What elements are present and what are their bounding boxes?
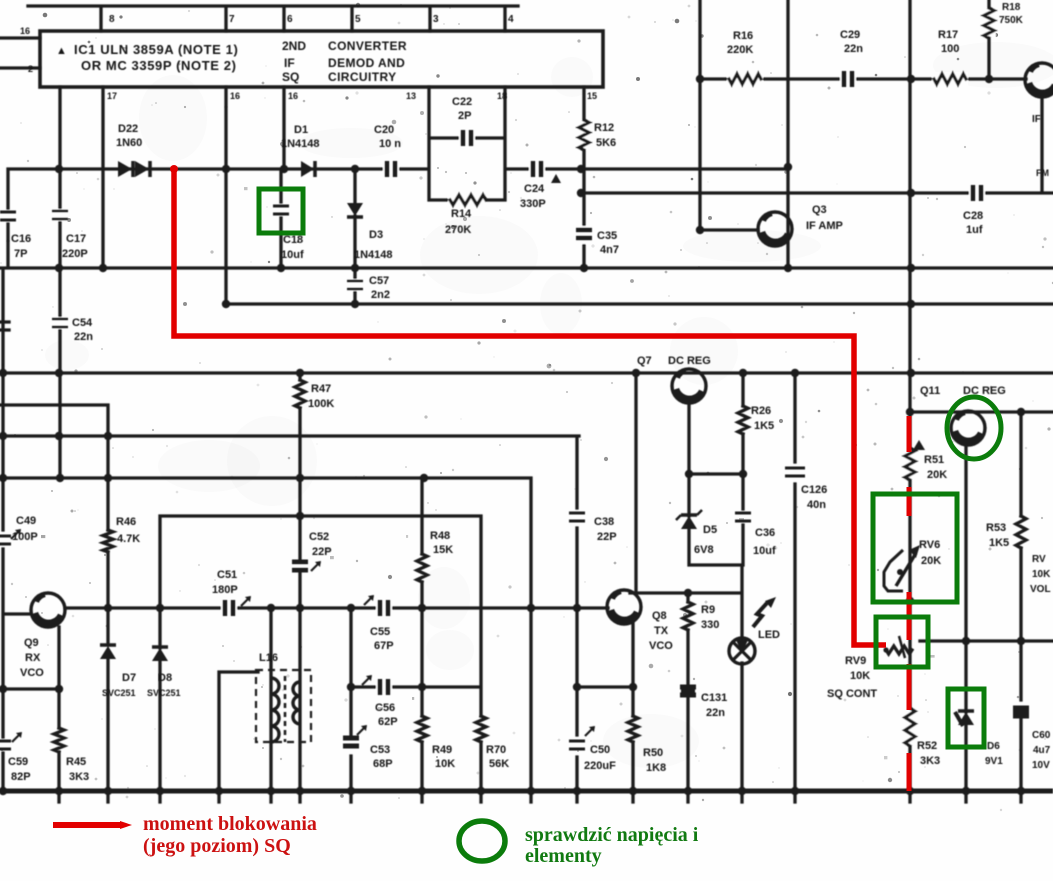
svg-text:IC1 ULN 3859A (NOTE 1): IC1 ULN 3859A (NOTE 1) <box>74 42 238 57</box>
svg-text:1uf: 1uf <box>966 224 983 236</box>
svg-text:4: 4 <box>508 14 514 25</box>
svg-text:16: 16 <box>288 91 298 101</box>
svg-text:FM: FM <box>1036 168 1049 178</box>
svg-text:CIRCUITRY: CIRCUITRY <box>328 70 397 84</box>
svg-text:R16: R16 <box>733 30 753 42</box>
svg-text:13: 13 <box>406 91 416 101</box>
svg-text:4.7K: 4.7K <box>117 533 140 545</box>
svg-text:5: 5 <box>355 14 361 25</box>
svg-text:D8: D8 <box>158 672 172 684</box>
svg-text:R70: R70 <box>486 744 506 756</box>
svg-text:▲: ▲ <box>56 45 67 57</box>
svg-text:20K: 20K <box>927 469 947 481</box>
svg-text:R50: R50 <box>643 747 663 759</box>
svg-text:100P: 100P <box>12 531 38 543</box>
svg-text:17: 17 <box>107 91 117 101</box>
svg-text:OR MC 3359P (NOTE 2): OR MC 3359P (NOTE 2) <box>81 58 237 73</box>
svg-text:40n: 40n <box>807 499 826 511</box>
svg-text:2P: 2P <box>458 110 471 122</box>
svg-text:sprawdzić napięcia i: sprawdzić napięcia i <box>525 824 699 846</box>
svg-text:22n: 22n <box>706 707 725 719</box>
svg-text:2ND: 2ND <box>282 39 306 53</box>
svg-text:270K: 270K <box>445 224 471 236</box>
svg-text:82P: 82P <box>11 771 31 783</box>
svg-text:C53: C53 <box>370 744 390 756</box>
svg-text:4u7: 4u7 <box>1033 745 1051 756</box>
svg-text:Q8: Q8 <box>652 610 667 622</box>
svg-text:R51: R51 <box>924 454 944 466</box>
svg-text:1N60: 1N60 <box>116 137 142 149</box>
svg-text:(jego poziom) SQ: (jego poziom) SQ <box>143 835 291 857</box>
svg-text:R18: R18 <box>1002 2 1021 13</box>
svg-text:67P: 67P <box>374 640 394 652</box>
svg-text:D3: D3 <box>369 229 383 241</box>
svg-text:IF: IF <box>284 56 295 70</box>
svg-text:DC REG: DC REG <box>668 355 711 367</box>
svg-text:RV6: RV6 <box>919 539 940 551</box>
svg-text:VCO: VCO <box>20 667 44 679</box>
svg-text:D22: D22 <box>118 123 138 135</box>
svg-text:C16: C16 <box>11 233 31 245</box>
svg-text:C50: C50 <box>590 744 610 756</box>
svg-text:10 n: 10 n <box>379 138 401 150</box>
svg-text:10K: 10K <box>1032 569 1051 580</box>
svg-text:3K3: 3K3 <box>69 771 89 783</box>
svg-text:C55: C55 <box>370 626 390 638</box>
svg-text:R12: R12 <box>594 122 614 134</box>
svg-text:C51: C51 <box>217 569 237 581</box>
svg-text:330P: 330P <box>520 198 546 210</box>
svg-text:62P: 62P <box>378 716 398 728</box>
svg-text:R17: R17 <box>938 29 958 41</box>
svg-text:1N4148: 1N4148 <box>281 138 320 150</box>
svg-text:1K5: 1K5 <box>989 537 1009 549</box>
svg-text:SQ: SQ <box>282 70 299 84</box>
svg-text:22P: 22P <box>597 531 617 543</box>
svg-text:LED: LED <box>758 629 780 641</box>
svg-text:220P: 220P <box>62 248 88 260</box>
svg-text:L16: L16 <box>259 652 278 664</box>
svg-text:C59: C59 <box>8 756 28 768</box>
svg-text:100: 100 <box>941 43 959 55</box>
svg-text:3: 3 <box>433 14 439 25</box>
svg-text:RV9: RV9 <box>845 655 866 667</box>
svg-text:220uF: 220uF <box>584 760 616 772</box>
svg-text:RV: RV <box>1032 554 1046 565</box>
svg-text:C20: C20 <box>374 124 394 136</box>
svg-text:Q9: Q9 <box>24 637 39 649</box>
svg-text:moment blokowania: moment blokowania <box>143 813 317 835</box>
svg-text:15: 15 <box>587 91 597 101</box>
svg-text:R45: R45 <box>66 756 86 768</box>
svg-text:18: 18 <box>497 91 507 101</box>
svg-text:SQ CONT: SQ CONT <box>827 688 877 700</box>
svg-text:68P: 68P <box>373 758 393 770</box>
svg-text:C131: C131 <box>701 692 727 704</box>
svg-text:Q11: Q11 <box>920 385 940 397</box>
svg-text:R48: R48 <box>430 530 450 542</box>
svg-text:180P: 180P <box>212 584 238 596</box>
svg-text:C29: C29 <box>840 29 860 41</box>
svg-text:Q7: Q7 <box>637 355 652 367</box>
svg-text:R26: R26 <box>751 405 771 417</box>
svg-text:R53: R53 <box>986 522 1006 534</box>
svg-text:C126: C126 <box>801 484 827 496</box>
svg-text:750K: 750K <box>999 15 1024 26</box>
svg-text:IF AMP: IF AMP <box>806 220 843 232</box>
svg-text:2: 2 <box>28 64 33 74</box>
svg-text:C60: C60 <box>1032 730 1051 741</box>
svg-text:D5: D5 <box>703 524 717 536</box>
svg-text:7P: 7P <box>14 248 27 260</box>
svg-text:R52: R52 <box>917 740 937 752</box>
svg-text:D6: D6 <box>987 741 1000 752</box>
svg-text:6V8: 6V8 <box>694 544 714 556</box>
svg-text:R47: R47 <box>311 383 331 395</box>
svg-text:1N4148: 1N4148 <box>354 249 393 261</box>
svg-text:C24: C24 <box>524 183 545 195</box>
svg-text:5K6: 5K6 <box>596 137 616 149</box>
svg-text:C18: C18 <box>283 234 303 246</box>
svg-text:R49: R49 <box>432 744 452 756</box>
svg-text:C17: C17 <box>66 233 86 245</box>
svg-text:D1: D1 <box>294 124 308 136</box>
svg-text:C57: C57 <box>369 275 389 287</box>
svg-text:7: 7 <box>229 14 235 25</box>
svg-text:DEMOD AND: DEMOD AND <box>328 56 405 70</box>
svg-text:CONVERTER: CONVERTER <box>328 39 407 53</box>
svg-text:C54: C54 <box>72 317 93 329</box>
svg-text:16: 16 <box>20 26 30 36</box>
svg-text:VOL: VOL <box>1030 584 1051 595</box>
svg-text:100K: 100K <box>308 398 334 410</box>
svg-text:22P: 22P <box>312 546 332 558</box>
svg-text:R46: R46 <box>116 516 136 528</box>
svg-text:2n2: 2n2 <box>371 289 390 301</box>
svg-text:4n7: 4n7 <box>600 244 619 256</box>
svg-text:C38: C38 <box>594 516 614 528</box>
svg-text:10K: 10K <box>850 670 870 682</box>
svg-text:R14: R14 <box>451 208 472 220</box>
svg-text:3K3: 3K3 <box>920 755 940 767</box>
svg-text:16: 16 <box>230 91 240 101</box>
svg-text:1K5: 1K5 <box>754 420 774 432</box>
svg-text:330: 330 <box>701 619 719 631</box>
svg-text:C35: C35 <box>597 230 617 242</box>
svg-text:D7: D7 <box>122 672 136 684</box>
svg-text:10K: 10K <box>435 758 455 770</box>
svg-text:VCO: VCO <box>649 640 673 652</box>
svg-text:IF: IF <box>1032 114 1041 125</box>
svg-text:C49: C49 <box>16 515 36 527</box>
svg-text:220K: 220K <box>727 44 753 56</box>
svg-text:C56: C56 <box>375 702 395 714</box>
svg-text:R9: R9 <box>701 604 715 616</box>
svg-text:C28: C28 <box>963 210 983 222</box>
svg-text:SVC251: SVC251 <box>102 688 136 698</box>
svg-text:SVC251: SVC251 <box>147 688 181 698</box>
svg-text:10uf: 10uf <box>281 249 304 261</box>
svg-text:C36: C36 <box>755 527 775 539</box>
svg-text:56K: 56K <box>489 758 509 770</box>
svg-text:10uf: 10uf <box>753 545 776 557</box>
svg-text:elementy: elementy <box>525 845 602 867</box>
svg-text:C22: C22 <box>452 96 472 108</box>
svg-text:Q3: Q3 <box>812 204 827 216</box>
svg-text:15K: 15K <box>433 544 453 556</box>
svg-text:RX: RX <box>25 652 41 664</box>
svg-text:9V1: 9V1 <box>985 756 1003 767</box>
svg-text:10V: 10V <box>1032 760 1050 771</box>
svg-text:TX: TX <box>654 625 669 637</box>
svg-text:8: 8 <box>109 14 115 25</box>
svg-text:1K8: 1K8 <box>646 762 666 774</box>
svg-text:22n: 22n <box>844 43 863 55</box>
svg-text:C52: C52 <box>309 531 329 543</box>
svg-text:20K: 20K <box>921 555 941 567</box>
svg-text:22n: 22n <box>74 331 93 343</box>
svg-text:6: 6 <box>287 14 293 25</box>
